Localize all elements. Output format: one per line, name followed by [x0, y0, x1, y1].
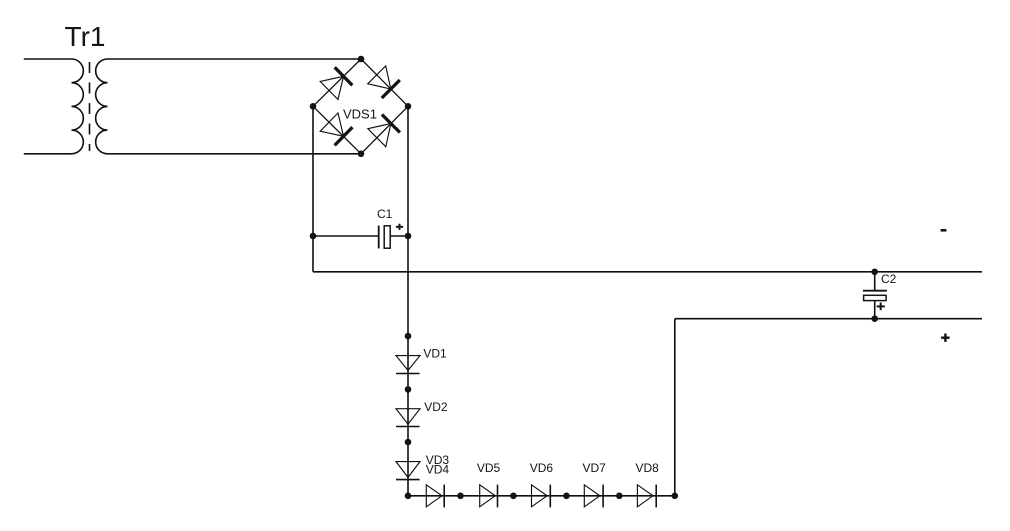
- diode VD2 cathode bar: [396, 426, 420, 428]
- capacitor C2 bottom plate (polarized box): [864, 295, 887, 300]
- diode VD2 triangle: [396, 409, 420, 425]
- capacitor C1 right plate (polarized box): [384, 226, 390, 248]
- svg-text:VD8: VD8: [636, 461, 660, 475]
- wire C2 bottom stub: [874, 301, 876, 319]
- diode VD6 cathode bar: [549, 485, 551, 508]
- wire bridge right node down through C1 to VD1 chain: [407, 106, 409, 496]
- diode VD7 triangle: [584, 485, 600, 507]
- wire secondary bottom to bridge: [108, 153, 362, 155]
- label minus output: [941, 229, 947, 232]
- C1 plus sign: [396, 226, 403, 228]
- diode VD3 triangle: [396, 462, 420, 478]
- diode VD4 cathode bar: [443, 485, 445, 508]
- diode VD4 triangle: [426, 485, 442, 507]
- bridge diode bottom-right cathode bar: [382, 115, 400, 133]
- wire plus rail: [675, 318, 982, 320]
- capacitor C1 left plate: [378, 226, 380, 249]
- wire primary top lead: [24, 58, 72, 60]
- diode VD5 triangle: [480, 485, 496, 507]
- bridge diode top-right triangle: [368, 66, 391, 89]
- svg-text:C1: C1: [377, 207, 393, 221]
- bridge diode top-right cathode bar: [382, 80, 400, 98]
- diode VD8 triangle: [637, 485, 653, 507]
- bridge diode top-left cathode bar: [335, 67, 353, 85]
- node VD1 top: [405, 333, 412, 340]
- node VD1-VD2: [405, 386, 412, 393]
- diode VD5 cathode bar: [497, 485, 499, 508]
- wire minus rail: [313, 271, 982, 273]
- svg-text:VD2: VD2: [424, 400, 448, 414]
- node chain corner: [405, 493, 412, 500]
- diode VD7 cathode bar: [602, 485, 604, 508]
- transformer Tr1 core (dashed): [89, 62, 91, 151]
- node chain output: [672, 493, 679, 500]
- wire C2 top stub: [874, 272, 876, 291]
- bridge VDS1 edge top-left: [313, 59, 361, 106]
- node bridge left: [310, 103, 317, 110]
- wire C1 right lead: [390, 235, 408, 237]
- svg-text:Tr1: Tr1: [65, 21, 106, 52]
- node VD7-VD8: [616, 493, 623, 500]
- diode VD1 cathode bar: [396, 373, 420, 375]
- bridge VDS1 edge bottom-left: [313, 106, 361, 154]
- wire secondary top to bridge: [108, 58, 362, 60]
- transformer Tr1 secondary winding: [96, 59, 108, 154]
- wire primary bottom lead: [24, 153, 72, 155]
- capacitor C2 top plate: [863, 290, 887, 292]
- node C1 left: [310, 233, 317, 240]
- label plus output: [941, 337, 950, 339]
- transformer Tr1 primary winding: [72, 59, 84, 154]
- bridge diode bottom-right triangle: [368, 124, 391, 147]
- bridge diode bottom-left cathode bar: [335, 127, 353, 145]
- node VD5-VD6: [510, 493, 517, 500]
- svg-text:VD4: VD4: [426, 463, 450, 477]
- node C2 bottom: [871, 315, 878, 322]
- node C2 top: [871, 269, 878, 276]
- wire bottom chain: [408, 495, 675, 497]
- wire riser to plus rail: [674, 319, 676, 496]
- node VD2-VD3: [405, 439, 412, 446]
- node C1 right: [405, 233, 412, 240]
- wire C1 left lead: [313, 235, 379, 237]
- C2 plus sign: [877, 305, 885, 307]
- svg-text:C2: C2: [881, 272, 897, 286]
- svg-text:VD1: VD1: [423, 346, 447, 360]
- node bridge right: [405, 103, 412, 110]
- svg-text:VD6: VD6: [530, 461, 554, 475]
- node bridge top: [358, 56, 365, 63]
- bridge diode bottom-left triangle: [320, 113, 343, 136]
- node VD6-VD7: [563, 493, 570, 500]
- bridge VDS1 edge bottom-right: [361, 106, 408, 154]
- diode VD3 cathode bar: [396, 479, 420, 481]
- diode VD1 triangle: [396, 356, 420, 371]
- bridge VDS1 edge top-right: [361, 59, 408, 106]
- diode VD8 cathode bar: [655, 485, 657, 508]
- node VD4-VD5: [457, 493, 464, 500]
- diode VD6 triangle: [532, 485, 548, 507]
- svg-text:VDS1: VDS1: [343, 106, 377, 121]
- wire bridge left node down to minus corner: [312, 106, 314, 271]
- svg-text:VD7: VD7: [583, 461, 607, 475]
- node bridge bottom: [358, 151, 365, 158]
- svg-text:VD5: VD5: [477, 461, 501, 475]
- bridge diode top-left triangle: [320, 76, 343, 99]
